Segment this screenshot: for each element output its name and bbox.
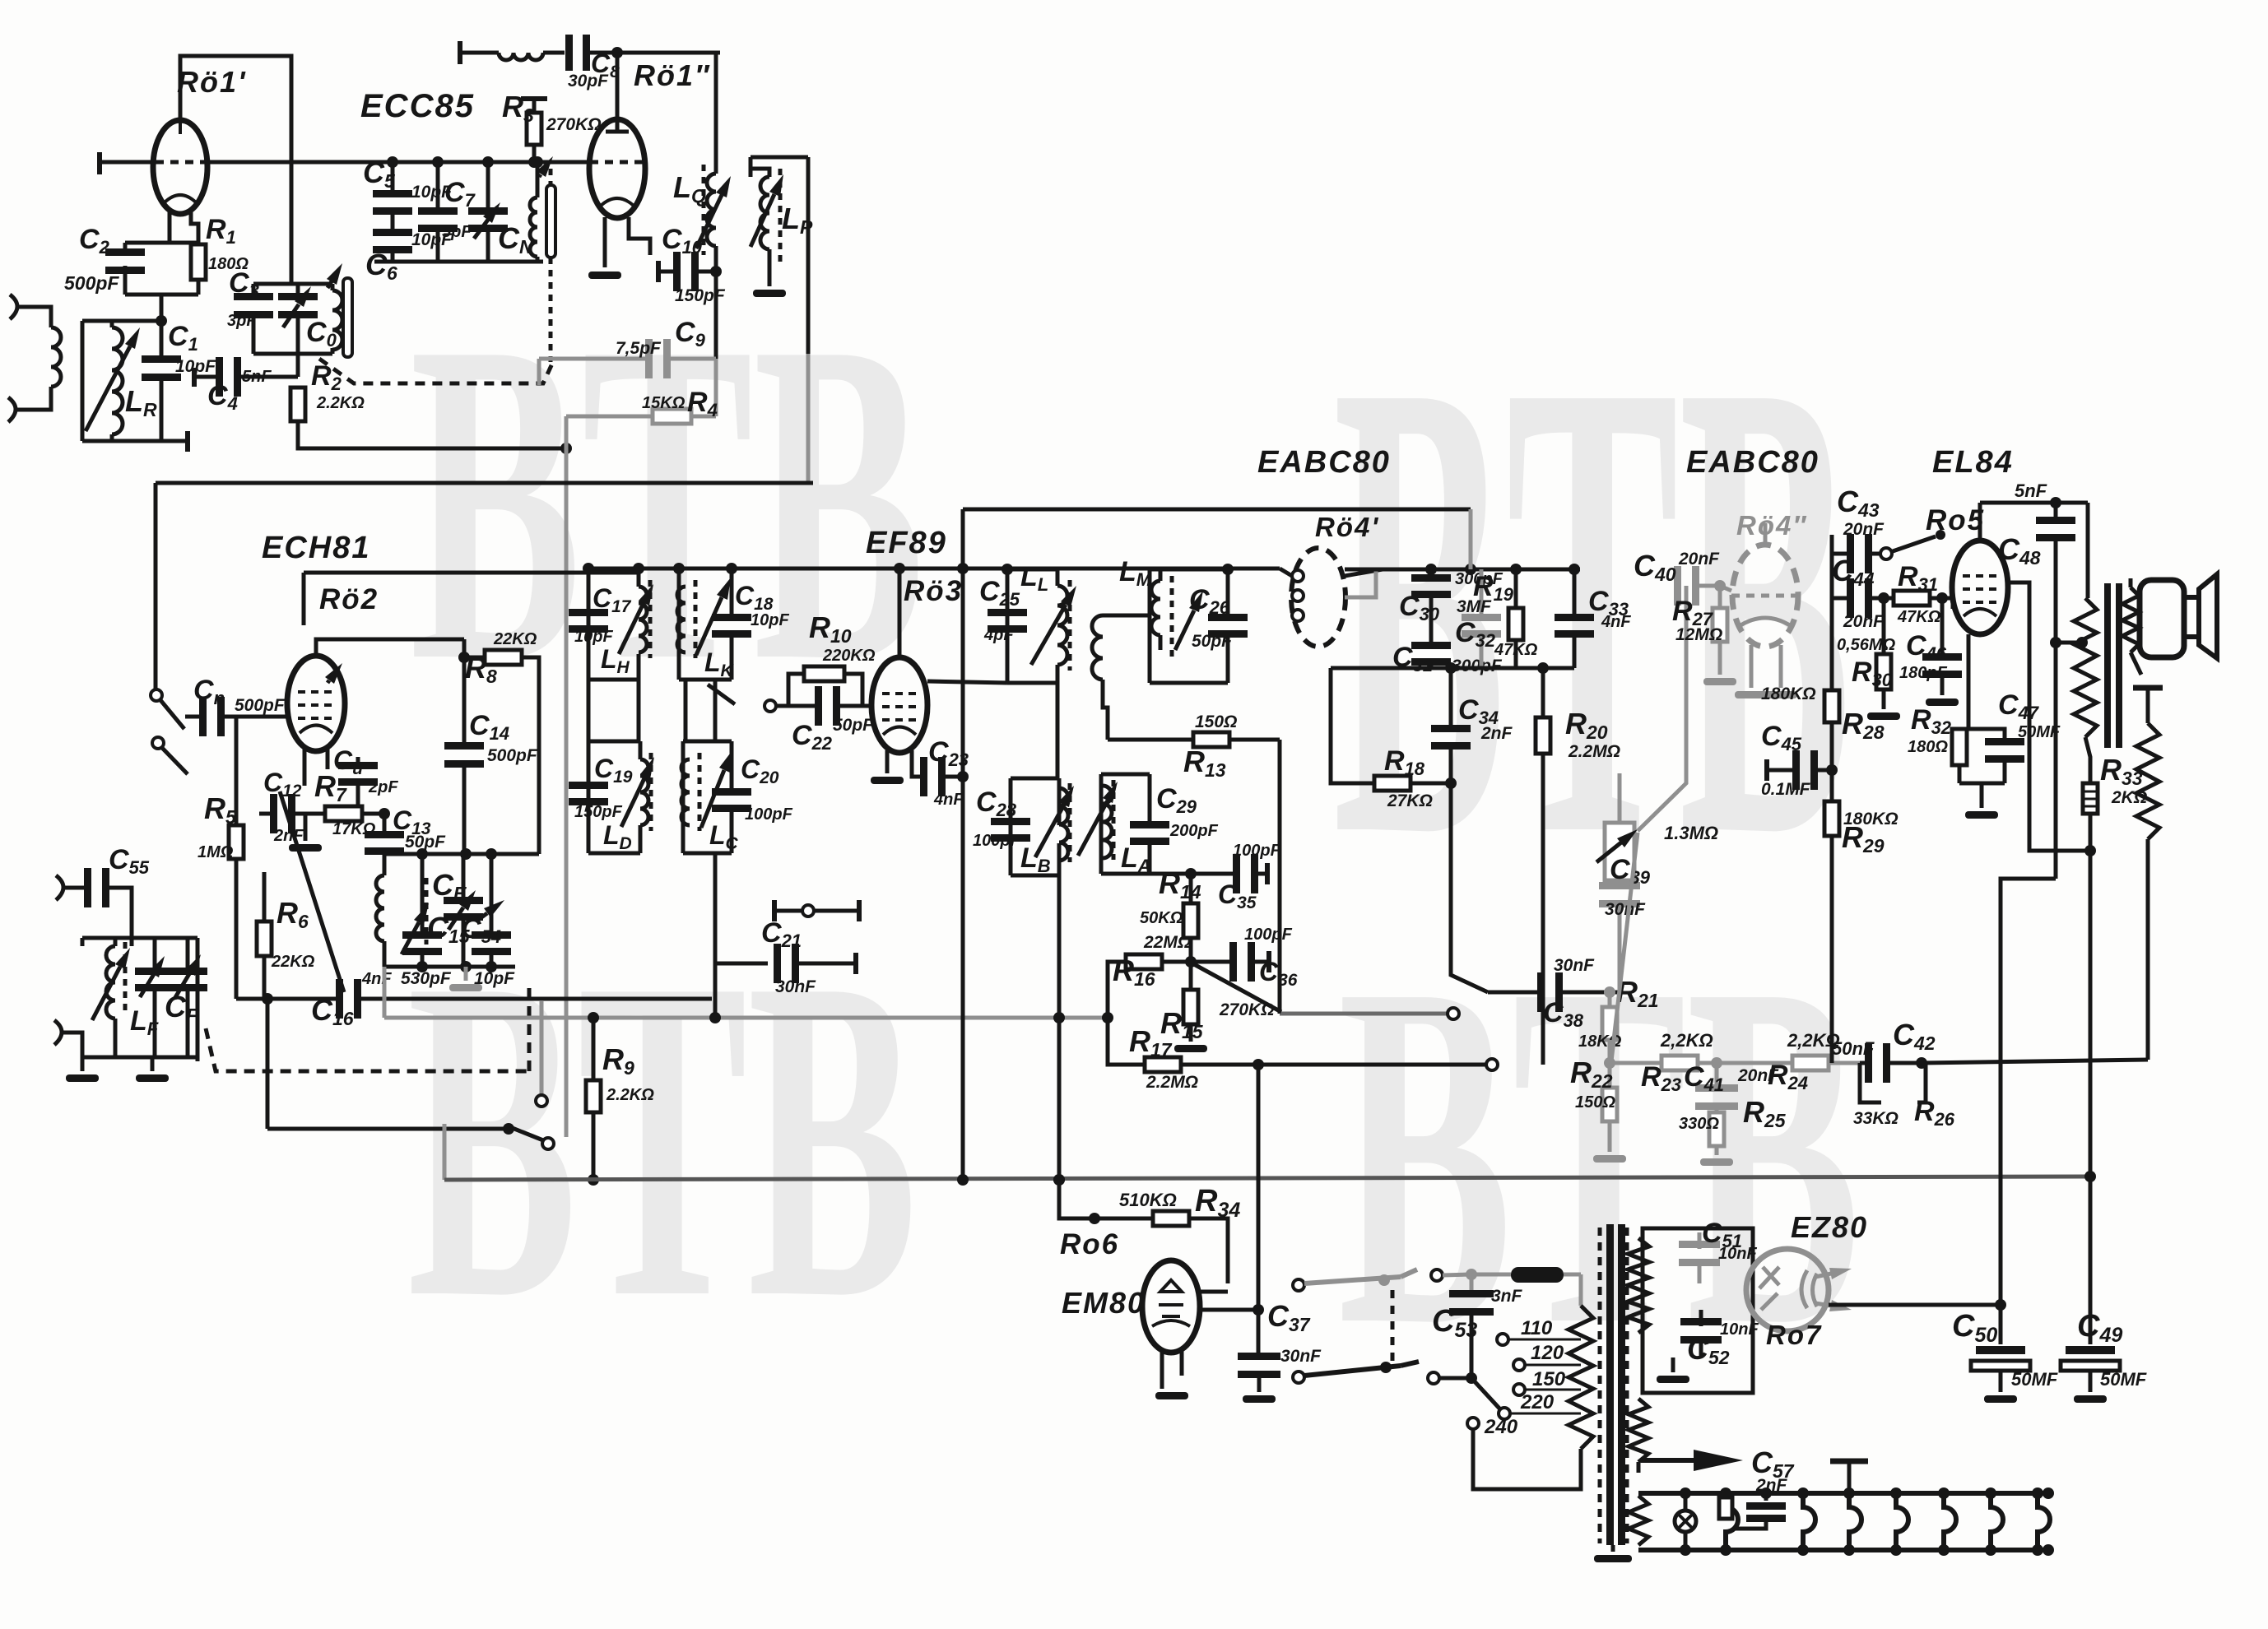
heater link from transformer	[1637, 1462, 1641, 1473]
wire EM80 to C37 node	[1198, 1308, 1258, 1312]
transformer core	[2104, 583, 2111, 748]
svg-text:C49: C49	[2077, 1309, 2122, 1347]
svg-text:100pF: 100pF	[1233, 842, 1281, 860]
resistor R13 (150Ω)	[1108, 738, 1193, 742]
svg-text:10nF: 10nF	[1720, 1320, 1759, 1339]
resistor R20 (2.2MΩ)	[1541, 668, 1545, 717]
output transformer primary	[2086, 503, 2090, 598]
wire ECC85 grid bus	[207, 160, 590, 165]
capacitor C37 (30nF)	[1253, 1304, 1264, 1316]
capacitor C8 (30pF)	[565, 35, 573, 71]
svg-text:C26: C26	[1189, 584, 1230, 618]
resistor R19 (47KΩ)	[1514, 569, 1518, 608]
svg-text:R26: R26	[1914, 1096, 1955, 1130]
resistor R10 (220KΩ) parallel capacitor C22 (50pF)	[788, 674, 804, 706]
wire cathode ground	[1959, 782, 2005, 786]
coupling loop to LM	[1103, 614, 1150, 618]
svg-text:2.2MΩ: 2.2MΩ	[1568, 742, 1620, 761]
svg-text:530pF: 530pF	[401, 969, 452, 988]
wire tank bottom to ground	[82, 1056, 198, 1060]
svg-text:4nF: 4nF	[933, 791, 964, 809]
svg-text:150Ω: 150Ω	[1575, 1093, 1615, 1112]
capacitor C13 (50pF)	[383, 814, 387, 834]
arrow feed to C57	[1641, 1458, 1694, 1463]
capacitor C32 (3MF) gray	[1480, 569, 1484, 617]
resistor R5 (1MΩ)	[235, 717, 239, 825]
mains switch dashed link	[1391, 1290, 1395, 1366]
resistor R24 (2.2KΩ) gray	[1792, 1056, 1829, 1070]
wire diagonal to C16	[280, 791, 344, 992]
capacitor C4 (5nF)	[192, 368, 197, 387]
detector bottom bus	[1331, 666, 1574, 671]
capacitor Cn (500pF) at Ro2 grid	[185, 715, 202, 719]
wire Ro3 anode up to IF bus	[898, 569, 902, 657]
variable capacitor C0	[278, 293, 318, 300]
svg-text:50pF: 50pF	[405, 833, 446, 852]
band switch contact 2	[152, 737, 164, 749]
svg-text:180pF: 180pF	[1899, 664, 1948, 682]
svg-text:5nF: 5nF	[2015, 480, 2047, 501]
IF can box LK/C18	[679, 567, 732, 571]
wire Ro1'' cathode pins + ground	[603, 217, 607, 267]
wire pot wiper to C40 gray	[1638, 586, 1686, 831]
wire Ro3 pins down	[885, 750, 890, 773]
resistor R26 (33KΩ) loop	[1860, 1063, 1881, 1102]
wire anode column x2226	[1830, 535, 1834, 1063]
wire outer frame left / top of ECH81 stage	[156, 481, 813, 485]
capacitor C42 (50nF)	[1860, 1061, 1866, 1065]
capacitor C15 (530pF)	[421, 854, 425, 933]
svg-text:500pF: 500pF	[235, 696, 286, 715]
wire top rail of detector stage	[963, 508, 1471, 512]
svg-text:C37: C37	[1267, 1299, 1311, 1335]
capacitor C25 (4pF)	[988, 609, 1027, 616]
svg-text:240: 240	[1484, 1416, 1518, 1438]
svg-text:180Ω: 180Ω	[1908, 738, 1948, 756]
wire switch feed vertical	[266, 999, 270, 1129]
antenna T bar above strip	[1847, 1461, 1852, 1493]
svg-text:C4: C4	[207, 380, 238, 414]
resistor R28 (180KΩ)	[1830, 643, 1834, 690]
svg-text:LC: LC	[709, 820, 739, 853]
inductor LD	[640, 759, 648, 825]
wire dipole lower to tank	[61, 1033, 82, 1061]
ratio det box LL/C25	[1007, 568, 1057, 572]
resistor R25 (330Ω) gray	[1709, 1112, 1724, 1146]
svg-text:Ro5: Ro5	[1926, 504, 1985, 536]
svg-text:EABC80: EABC80	[1257, 445, 1391, 480]
svg-text:LA: LA	[1121, 842, 1151, 876]
resistor R8 (22KΩ)	[464, 656, 485, 660]
svg-text:C55: C55	[109, 844, 150, 878]
oscillator coil box	[253, 282, 332, 286]
tube Ro4' (EABC80) dashed	[1291, 548, 1345, 647]
capacitor C31 (300pF)	[1411, 642, 1451, 649]
wire Ro4' right pins to bus	[1345, 569, 1383, 576]
HV secondary winding	[1628, 1238, 1649, 1333]
power transformer primary	[1579, 1274, 1583, 1306]
svg-text:30nF: 30nF	[1605, 900, 1646, 919]
svg-text:220KΩ: 220KΩ	[822, 647, 876, 665]
tube Ro2 (ECH81)	[287, 656, 345, 751]
capacitor C16 (4nF)	[236, 997, 338, 1001]
svg-text:C7: C7	[444, 177, 476, 211]
svg-text:EABC80: EABC80	[1686, 445, 1820, 480]
dial lamp rail top	[1638, 1491, 2048, 1496]
svg-text:50pF: 50pF	[1192, 632, 1233, 651]
resistor R34 (510KΩ)	[1053, 1174, 1065, 1186]
svg-text:Rö2: Rö2	[319, 583, 379, 615]
svg-text:12MΩ: 12MΩ	[1675, 625, 1722, 644]
svg-text:Cü: Cü	[333, 745, 363, 778]
svg-text:R28: R28	[1842, 707, 1885, 743]
mains switch upper gray	[1293, 1279, 1304, 1291]
capacitor C12 (2nF)	[259, 812, 272, 816]
svg-text:30nF: 30nF	[1280, 1347, 1322, 1366]
capacitor C29 (200pF)	[1130, 821, 1169, 828]
resistor R29 (180KΩ)	[1830, 722, 1834, 801]
oscillator trimmer slug	[343, 278, 352, 357]
tube Ro4'' (EABC80) gray	[1732, 545, 1798, 647]
capacitor C35 (100pF)	[1191, 872, 1234, 876]
svg-text:C16: C16	[311, 993, 354, 1029]
svg-text:Rö4': Rö4'	[1315, 512, 1379, 542]
wire dashed AFC link to CN slug	[319, 359, 552, 383]
tank cluster rails CE/C15/C54	[384, 852, 539, 856]
det box C28/LB	[1011, 777, 1059, 781]
capacitor C47 (50MF)	[1968, 729, 2005, 740]
svg-text:R5: R5	[204, 791, 237, 828]
resistor R33 (2KΩ)	[2083, 783, 2098, 814]
svg-text:50MF: 50MF	[2018, 723, 2061, 741]
capacitor C52 (10nF)	[1680, 1318, 1722, 1325]
svg-text:CF: CF	[165, 990, 198, 1026]
det box LM/C26	[1150, 568, 1228, 572]
wire Ro4'' top stem	[1764, 523, 1768, 545]
tap 220	[1499, 1408, 1510, 1419]
tap 110	[1497, 1334, 1508, 1345]
wire dashed AM/FM switch link	[206, 1028, 529, 1071]
svg-text:LD: LD	[603, 820, 632, 853]
band switch lower	[267, 1127, 509, 1131]
svg-text:20nF: 20nF	[1678, 550, 1720, 569]
EL84 top rail	[1980, 501, 2088, 505]
inductor LA	[1103, 786, 1112, 858]
resistor R7 (17KΩ)	[325, 806, 362, 821]
capacitor C34 (2nF)	[1449, 668, 1453, 727]
resistor R23 (2.2KΩ) gray	[1610, 1061, 1661, 1065]
wire gray L-link to heater bus	[443, 1124, 447, 1180]
capacitor C3 (3pF)	[234, 293, 273, 300]
wire C2/R1 to tank	[160, 295, 164, 321]
svg-text:Ro7: Ro7	[1766, 1320, 1822, 1350]
resistor R31 (47KΩ)	[1894, 591, 1930, 606]
dial lamp rail bottom	[1638, 1548, 2048, 1552]
capacitor C19 (150pF)	[569, 782, 608, 789]
resistor R1 (180Ω)	[191, 244, 206, 280]
resistor R3 (270KΩ) with top bar	[521, 96, 547, 101]
svg-text:R3: R3	[502, 90, 534, 126]
right end of strip	[2043, 1487, 2054, 1499]
svg-text:C25: C25	[979, 576, 1020, 610]
svg-text:3nF: 3nF	[1491, 1287, 1523, 1306]
resistor R22 (150Ω) gray	[1608, 1040, 1612, 1088]
wire Ro2 pins	[316, 639, 464, 656]
core ground	[1611, 1545, 1615, 1552]
svg-text:BTB: BTB	[407, 884, 918, 1394]
heater box ground	[1671, 1357, 1675, 1372]
resistor R32 (180Ω)	[1952, 729, 1967, 765]
svg-text:110: 110	[1521, 1317, 1553, 1339]
inductor LB	[1059, 788, 1068, 861]
svg-text:LB: LB	[1020, 842, 1051, 876]
svg-text:2nF: 2nF	[273, 827, 304, 845]
output secondary winding	[2122, 587, 2139, 652]
capacitor C50 (50MF) electrolytic	[1976, 1346, 2025, 1354]
svg-text:20nF: 20nF	[1843, 612, 1885, 631]
svg-text:EL84: EL84	[1932, 445, 2014, 480]
svg-text:500pF: 500pF	[64, 272, 119, 294]
svg-text:5pF: 5pF	[442, 223, 472, 241]
capacitor C44 (20nF)	[1832, 596, 1849, 601]
svg-text:20nF: 20nF	[1843, 520, 1885, 539]
speaker	[2140, 580, 2184, 657]
wire det output gray to terminal	[1280, 1012, 1447, 1016]
svg-text:C1: C1	[168, 321, 198, 355]
lamp dropper resistor	[1719, 1497, 1732, 1519]
svg-text:22KΩ: 22KΩ	[493, 630, 537, 648]
coupling coil antenna	[51, 327, 61, 387]
svg-text:CN: CN	[498, 221, 533, 258]
wire LL bottom to LB top	[1056, 683, 1060, 778]
wire LA/LB bottoms	[1057, 875, 1062, 1180]
inductor LK	[677, 587, 686, 652]
FM input tank box LF/CF	[82, 936, 198, 940]
svg-text:270KΩ: 270KΩ	[1219, 1000, 1275, 1019]
cluster frame C5/C6/C7/CN	[374, 260, 543, 264]
variable capacitor CN	[486, 162, 490, 211]
capacitor C18 (10pF)	[712, 614, 751, 621]
resistor R27 (12MΩ) gray	[1718, 586, 1722, 608]
resistor R18 (27KΩ)	[1331, 668, 1374, 783]
wire Ro4'' cathode pins to ground gray	[1750, 645, 1754, 688]
capacitor C48 (5nF)	[2054, 503, 2058, 518]
wire grid line Ro1' with terminal bar	[97, 152, 102, 174]
wire R2 bottom to junction	[298, 421, 566, 448]
capacitor C54 (10pF)	[490, 854, 494, 933]
resistor R21 (18KΩ) gray	[1608, 992, 1612, 1007]
oscillator coil ECH81	[376, 875, 384, 941]
tube Ro1'' (ECC85 b)	[589, 119, 645, 218]
capacitor C6 (10pF)	[373, 229, 412, 236]
wire 1.3M diagonal to R22 top	[1611, 833, 1638, 1061]
band switch contact 1	[151, 689, 162, 701]
capacitor C51 (10nF) gray	[1679, 1241, 1720, 1248]
wire EL84 cathode	[1967, 634, 1971, 729]
wire AVC bus gray	[383, 967, 387, 1018]
svg-text:3pF: 3pF	[227, 312, 257, 330]
svg-text:R31: R31	[1898, 561, 1938, 595]
slug dashed for oscillator coil	[425, 878, 429, 944]
tube Ro1' (ECC85 a)	[153, 120, 207, 214]
inductor L_Q	[714, 53, 718, 174]
capacitor C28 (100pF)	[991, 818, 1030, 825]
tap 240	[1467, 1418, 1479, 1429]
slug dashed line CN	[549, 169, 553, 185]
wire vertical trunk to oscillator	[290, 162, 294, 284]
svg-text:30pF: 30pF	[568, 72, 609, 90]
svg-text:1MΩ: 1MΩ	[198, 843, 234, 861]
svg-text:2.2KΩ: 2.2KΩ	[606, 1086, 654, 1104]
inductor LC	[681, 759, 690, 825]
wire EZ80 cathode line to C50	[1829, 1303, 2001, 1307]
wire gray drop from R4 to R2 junction and down to band switch	[565, 416, 569, 448]
svg-text:Rö1″: Rö1″	[634, 58, 710, 92]
oscillator coil	[332, 290, 342, 350]
resistor R17 (2.2MΩ)	[1108, 1018, 1145, 1065]
capacitor C53 (3nF)	[1470, 1274, 1474, 1293]
svg-text:2nF: 2nF	[1480, 724, 1513, 743]
IF can box LC/C20	[683, 740, 732, 744]
tube Ro3 (EF89)	[871, 657, 927, 753]
svg-text:100pF: 100pF	[973, 832, 1021, 850]
svg-text:R1: R1	[206, 214, 236, 248]
svg-text:180KΩ: 180KΩ	[1761, 685, 1816, 703]
dial lamp	[1675, 1511, 1696, 1532]
capacitor C36 (100pF)	[1191, 960, 1231, 964]
bleeder resistor to voice coil	[2133, 685, 2163, 691]
capacitor C33 (4nF)	[1573, 569, 1577, 617]
resistor R30 (0.56MΩ)	[1882, 598, 1886, 654]
variable capacitor CE	[462, 854, 466, 898]
box C2/R1	[125, 241, 198, 245]
svg-text:Ro6: Ro6	[1060, 1228, 1119, 1260]
IF can box C19/LD	[588, 740, 640, 744]
variable capacitor CF pair	[135, 968, 174, 975]
inductor L_R (tuned)	[112, 327, 123, 434]
wire grid dashed inside Ro1'	[156, 160, 207, 165]
capacitor C7 (5pF)	[436, 162, 440, 211]
wire EM80 grid to R34 loop	[1200, 1290, 1228, 1294]
svg-text:1.3MΩ: 1.3MΩ	[1664, 823, 1718, 843]
svg-text:C42: C42	[1893, 1018, 1936, 1054]
svg-text:10pF: 10pF	[751, 611, 789, 629]
FM dipole antenna arcs	[56, 875, 63, 900]
capacitor C9 (7.5pF) gray link	[537, 359, 541, 385]
IF bus top	[588, 567, 963, 571]
rectifier filament box	[1643, 1228, 1753, 1393]
inductor LL	[1057, 586, 1067, 665]
mains terminal right upper + fuse	[1431, 1269, 1443, 1281]
wire audio drop to EM80/C37	[1257, 1065, 1261, 1358]
input terminal and switch to R10/C22	[765, 700, 776, 712]
IF can box C17/LH	[588, 567, 639, 571]
capacitor C49 (50MF) electrolytic	[2066, 1346, 2115, 1354]
wire diagonal det to audio	[1192, 963, 1281, 1012]
inductor LH	[639, 587, 647, 652]
svg-text:EZ80: EZ80	[1791, 1210, 1868, 1244]
capacitor C5 (10pF)	[391, 162, 395, 193]
antenna arcs left (AM)	[10, 295, 17, 319]
wire ECC85 bus to Ro1'' grid	[346, 160, 590, 165]
tube Ro6 (EM80)	[1142, 1260, 1200, 1353]
tap 120	[1513, 1359, 1525, 1371]
heater bus bottom	[444, 1176, 2093, 1180]
wire to voltage tap 220	[1471, 1378, 1501, 1410]
svg-text:150pF: 150pF	[574, 803, 623, 821]
capacitor C1 (10pF)	[142, 355, 181, 363]
switch stubs near C21	[772, 900, 777, 921]
svg-text:C29: C29	[1156, 783, 1197, 817]
wire Ro1'' grid dashed	[570, 160, 590, 165]
capacitor C20 (100pF)	[712, 788, 751, 796]
capacitor C46 (180pF)	[1940, 598, 1945, 656]
svg-text:C10: C10	[662, 224, 703, 258]
capacitor C57 (2nF)	[1764, 1493, 1768, 1501]
svg-text:33KΩ: 33KΩ	[1853, 1109, 1899, 1128]
capacitor C43 (20nF)	[1832, 552, 1849, 556]
resistor R4 (15KΩ) gray	[714, 359, 718, 416]
svg-text:10pF: 10pF	[574, 628, 613, 646]
oscillator coil ECC85 with slug	[536, 162, 540, 197]
svg-text:22MΩ: 22MΩ	[1143, 933, 1191, 952]
wire EL84 grid stub	[1951, 598, 1955, 609]
svg-text:50MF: 50MF	[2100, 1369, 2147, 1390]
capacitor C26 (50pF)	[1208, 614, 1248, 621]
capacitor Cu (2pF)	[356, 757, 360, 765]
transformer core bars	[1598, 1228, 1602, 1543]
resistor R9 (2.2KΩ)	[588, 1012, 599, 1023]
capacitor C14 (500pF)	[462, 639, 467, 745]
svg-text:Rö1': Rö1'	[177, 65, 247, 99]
capacitor C39 (30nF)	[1599, 882, 1640, 889]
capacitor C41 (20nF) gray	[1715, 1063, 1719, 1086]
inductor LM	[1151, 581, 1160, 635]
wire R13 to det output	[1278, 740, 1282, 1014]
svg-text:R6: R6	[277, 896, 309, 932]
wires joining IF cans row1-row2	[587, 680, 591, 741]
svg-text:2.2KΩ: 2.2KΩ	[316, 394, 365, 412]
svg-text:2.2MΩ: 2.2MΩ	[1146, 1073, 1198, 1092]
det box LA/C29	[1101, 773, 1150, 777]
svg-text:5nF: 5nF	[242, 368, 272, 386]
svg-text:0.1MF: 0.1MF	[1761, 780, 1811, 799]
wire big vertical screen bus	[961, 509, 965, 1180]
capacitor C17 (10pF)	[569, 609, 608, 616]
tap 150	[1513, 1384, 1525, 1395]
resistor R6 (22KΩ)	[257, 921, 272, 956]
svg-text:50KΩ: 50KΩ	[1140, 909, 1183, 927]
svg-text:LL: LL	[1020, 561, 1048, 595]
svg-text:EF89: EF89	[866, 526, 947, 560]
heater bump dividers	[1726, 1493, 1738, 1550]
capacitor C2 (500pF)	[105, 248, 145, 256]
svg-text:50pF: 50pF	[833, 716, 874, 735]
tank box L_R / C1	[82, 319, 161, 323]
svg-text:C48: C48	[1998, 532, 2041, 569]
svg-text:7,5pF: 7,5pF	[616, 339, 662, 358]
capacitor C21 (30nF)	[715, 962, 768, 966]
svg-text:2pF: 2pF	[368, 778, 398, 796]
top coil + C8 input	[458, 41, 462, 64]
svg-text:2nF: 2nF	[1755, 1476, 1788, 1495]
inductor LF	[106, 946, 115, 1019]
svg-text:R34: R34	[1195, 1184, 1240, 1222]
tube Ro5 (EL84)	[1952, 541, 2008, 634]
wire Ro1' cathode pins down	[168, 212, 172, 243]
svg-text:LQ: LQ	[673, 170, 706, 207]
svg-text:EM80: EM80	[1062, 1286, 1146, 1320]
